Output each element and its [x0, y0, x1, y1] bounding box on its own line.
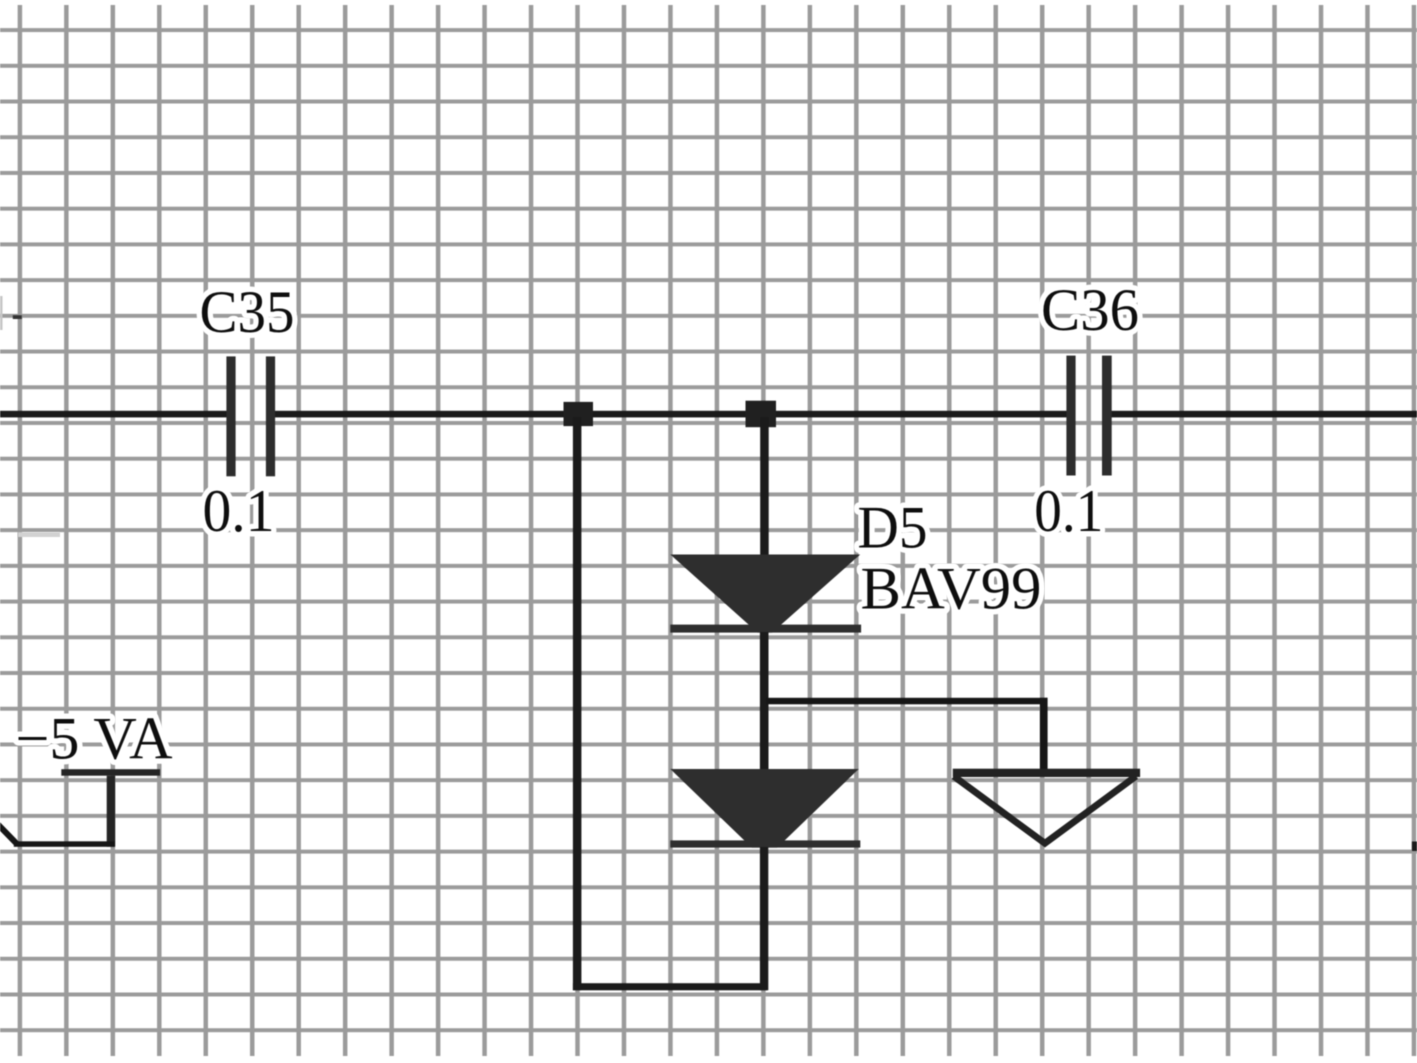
svg-text:D5: D5 [858, 495, 928, 561]
svg-text:C35: C35 [200, 279, 295, 345]
svg-text:−5 VA: −5 VA [16, 706, 173, 772]
svg-text:BAV99: BAV99 [861, 556, 1042, 622]
svg-text:C36: C36 [1041, 277, 1139, 343]
svg-text:0.1: 0.1 [1034, 478, 1103, 544]
svg-text:0.1: 0.1 [203, 478, 275, 544]
